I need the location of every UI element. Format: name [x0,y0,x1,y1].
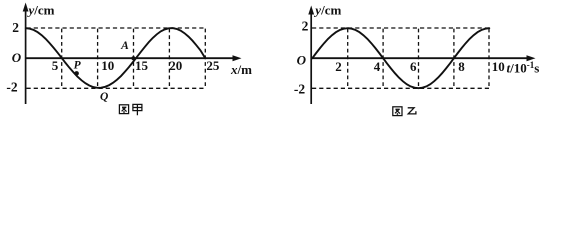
svg-text:-2: -2 [6,80,17,95]
svg-text:y/cm: y/cm [27,3,55,18]
caption 图甲 : glyph 甲 [133,104,142,115]
left dashed vertical x=15 [133,29,135,88]
left dashed horizontal y=-2 [27,87,206,89]
right y-axis arrowhead [308,6,314,15]
svg-text:2: 2 [335,59,342,74]
svg-text:4: 4 [374,59,381,74]
svg-text:x/m: x/m [230,62,252,77]
right x-axis arrowhead [527,55,536,61]
right wave curve y=2sin(2pi t/8) [312,28,489,88]
right graph: x-axis [311,57,528,59]
right dashed vertical t=10 [488,29,490,88]
right dashed vertical t=6 [418,29,420,88]
left dashed vertical x=5 [61,29,63,88]
svg-text:10: 10 [101,58,114,73]
svg-text:A: A [120,40,129,52]
left dashed horizontal y=+2 [27,27,206,29]
svg-text:20: 20 [169,58,182,73]
svg-text:O: O [297,52,307,67]
svg-text:25: 25 [206,58,220,73]
right dashed horizontal y=+2 [312,27,489,29]
svg-text:15: 15 [135,58,149,73]
svg-text:t/10-1s: t/10-1s [507,60,540,76]
left wave curve y=2cos(2pi x/20) [26,28,205,88]
left point A dot [131,56,135,60]
svg-text:Q: Q [100,91,108,103]
caption 图乙 : glyph 乙 [408,108,416,114]
svg-text:P: P [74,59,82,71]
right graph: y-axis [310,9,312,104]
svg-text:2: 2 [12,20,19,35]
left y-axis arrowhead [23,3,29,12]
right dashed horizontal y=-2 [312,87,489,89]
svg-text:2: 2 [302,19,309,34]
left graph: x-axis [26,57,235,59]
svg-text:8: 8 [458,59,465,74]
caption 图乙 : glyph 图 [393,107,402,116]
svg-text:10: 10 [492,59,505,74]
left point P dot [74,71,79,76]
svg-text:y/cm: y/cm [313,3,341,18]
right dashed vertical t=4 [382,29,384,88]
left dashed vertical x=25 [204,29,206,88]
right dashed vertical t=8 [453,29,455,88]
left graph: y-axis [25,6,27,104]
caption 图甲 : glyph 图 [119,105,128,114]
svg-text:6: 6 [410,59,417,74]
svg-text:-2: -2 [294,81,305,96]
left dashed vertical x=20 [168,29,170,88]
svg-text:5: 5 [52,58,59,73]
svg-text:O: O [12,50,22,65]
left x-axis arrowhead [233,55,242,61]
right dashed vertical t=2 [347,29,349,88]
left dashed vertical x=10 [97,29,99,88]
